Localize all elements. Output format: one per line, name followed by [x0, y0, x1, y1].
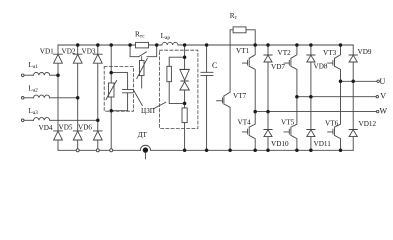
wire bypass switch left: [130, 45, 138, 57]
transistor VT4: [242, 112, 255, 151]
transistor VT3: [328, 45, 341, 81]
current sensor DT hump: [140, 145, 150, 150]
wire Rt right lead: [246, 30, 255, 45]
svg-text:Lа3: Lа3: [28, 107, 38, 116]
transistor VT5: [284, 97, 297, 151]
wire bottom DC bus right segment: [151, 149, 354, 151]
node top bus box1: [109, 43, 113, 47]
diode VD11: [307, 97, 315, 151]
svg-text:VD8: VD8: [314, 62, 328, 70]
transistor VT6: [328, 81, 341, 150]
node bottom bus VD6: [96, 149, 99, 152]
wire TVS to node: [184, 90, 186, 103]
node box1 top: [109, 71, 113, 75]
resistor R2 box2: [167, 66, 172, 81]
wire bottom DC bus left segment: [58, 149, 140, 151]
node bottom bus VD11: [309, 149, 313, 153]
transistor VT1: [242, 45, 255, 112]
node top bus VD3: [96, 43, 100, 47]
wire box2 left branch top: [169, 57, 184, 66]
svg-text:Lар: Lар: [161, 32, 171, 41]
transistor VT2: [284, 45, 297, 97]
svg-text:VD1: VD1: [40, 47, 54, 55]
terminal W: [377, 110, 379, 112]
diode VD6: [93, 131, 102, 150]
wire phase 1 input: [24, 74, 34, 76]
varistor RU2 under switch: [141, 57, 143, 61]
wire box2 column to resistor R3: [184, 103, 186, 108]
svg-text:VD4: VD4: [39, 124, 53, 132]
node W VD7: [266, 110, 270, 114]
svg-text:VD2: VD2: [62, 48, 76, 56]
inductor La1: [34, 73, 50, 76]
node bottom bus box1: [110, 149, 113, 152]
svg-text:W: W: [380, 107, 388, 116]
node top bus VT3: [339, 43, 343, 47]
node U VT3: [339, 80, 343, 84]
svg-text:VT1: VT1: [236, 47, 250, 55]
diode VD10: [264, 112, 272, 151]
node W VT1: [253, 110, 257, 114]
svg-text:VD9: VD9: [358, 48, 372, 56]
node top bus VD2: [76, 43, 80, 47]
capacitor C1 snubber: [111, 73, 133, 111]
node U VD9: [351, 80, 355, 84]
svg-text:VD3: VD3: [82, 48, 96, 56]
inductor La2: [34, 95, 50, 98]
node phase A: [56, 73, 60, 77]
wire column 2 middle: [77, 98, 79, 131]
svg-text:C: C: [212, 61, 217, 70]
node bottom bus VT5: [295, 149, 299, 153]
wire output U: [341, 80, 378, 82]
label pointer CZP left: [134, 91, 143, 106]
terminal U: [377, 80, 379, 82]
wire capacitor C column bottom: [206, 75, 208, 150]
diode VD5: [73, 131, 82, 150]
svg-text:Rт: Rт: [230, 12, 238, 21]
node phase B: [76, 96, 80, 100]
svg-text:Lа2: Lа2: [28, 84, 38, 93]
svg-text:VT4: VT4: [238, 119, 252, 127]
wire snubber box1 column top: [110, 45, 112, 73]
label pointer CZP right: [154, 102, 166, 109]
resistor R3 box2 bottom: [182, 108, 187, 123]
node box1 bottom: [109, 109, 113, 113]
svg-text:VT6: VT6: [325, 120, 339, 128]
node bottom bus VT4: [253, 149, 257, 153]
diode VD4: [54, 131, 63, 150]
current sensor DT dot: [143, 147, 148, 152]
node box2 bottom: [183, 102, 187, 106]
wire output V: [297, 96, 376, 98]
wire Rt left lead to VT7 collector: [230, 30, 233, 92]
resistor Rt brake: [233, 27, 246, 33]
node top bus VD7: [266, 43, 270, 47]
diode VD1: [54, 45, 63, 75]
svg-text:VD11: VD11: [314, 140, 332, 148]
node top bus box2: [183, 43, 187, 47]
current sensor DT lead: [144, 153, 146, 159]
TVS suppressor VD bidirectional: [180, 69, 189, 90]
wire snubber box1 column bottom: [110, 111, 112, 151]
varistor RU1: [110, 73, 112, 83]
wire top DC bus right segment: [178, 44, 353, 46]
svg-text:Rтс: Rтс: [135, 30, 145, 39]
wire column 3 middle: [97, 120, 99, 131]
svg-text:V: V: [380, 92, 386, 101]
dashed enclosure box1: [104, 67, 133, 112]
node bottom bus VD5: [76, 149, 79, 152]
wire box2 column top: [184, 45, 186, 57]
svg-text:VD5: VD5: [59, 124, 73, 132]
node V VT2: [295, 95, 299, 99]
node box2 top: [183, 55, 187, 59]
diode VD3: [93, 45, 102, 120]
wire column 1 middle: [57, 75, 59, 131]
terminal V: [376, 96, 378, 98]
diode VD12: [349, 81, 357, 150]
svg-text:VD10: VD10: [271, 140, 289, 148]
wire phase 3 to node C: [50, 119, 98, 121]
capacitor C: [201, 72, 213, 75]
terminal input phase 2: [21, 97, 24, 100]
wire phase 2 input: [24, 97, 34, 99]
wire phase 1 to node A: [50, 74, 58, 76]
diode VD8: [307, 45, 315, 97]
svg-text:ДТ: ДТ: [138, 131, 148, 139]
wire output W: [255, 111, 376, 113]
svg-text:VT2: VT2: [278, 49, 292, 57]
node bottom bus capacitor: [205, 149, 209, 153]
terminal input phase 1: [21, 74, 24, 77]
node top bus switch left: [128, 43, 132, 47]
transistor VT7: [217, 92, 231, 150]
node bottom bus VD10: [266, 149, 270, 153]
svg-text:Lа1: Lа1: [29, 61, 39, 70]
node phase C: [96, 119, 100, 123]
svg-text:VD12: VD12: [359, 120, 377, 128]
inductor La3: [34, 118, 50, 121]
wire phase 2 to node B: [50, 97, 78, 99]
node top bus VT2: [295, 43, 299, 47]
svg-text:VD7: VD7: [271, 63, 285, 71]
diode VD7: [264, 45, 272, 112]
switch K1 blade: [139, 52, 147, 57]
wire box2 column bottom: [184, 123, 186, 151]
node top bus VD8: [309, 43, 313, 47]
terminal input phase 3: [21, 119, 24, 122]
diode VD9: [349, 45, 357, 81]
node bottom bus VT7: [228, 149, 232, 153]
wire top DC bus left segment: [58, 44, 162, 46]
svg-text:U: U: [380, 77, 386, 86]
resistor Rtc: [136, 42, 149, 48]
node bottom bus VT6: [339, 149, 343, 153]
wire box2 column to TVS: [184, 57, 186, 69]
svg-text:VT3: VT3: [323, 49, 337, 57]
dashed enclosure box2: [160, 50, 198, 128]
inductor Lap: [162, 42, 178, 45]
node top bus VT1: [253, 43, 257, 47]
svg-text:VT7: VT7: [233, 92, 247, 100]
wire phase 3 input: [24, 119, 34, 121]
wire bypass switch right: [147, 45, 157, 57]
wire capacitor C column top: [206, 45, 208, 72]
node top bus switch right: [155, 43, 159, 47]
node bottom bus box2: [183, 149, 187, 153]
svg-text:ЦЗП: ЦЗП: [141, 107, 155, 115]
svg-text:VD6: VD6: [78, 124, 92, 132]
node top bus capacitor: [205, 43, 209, 47]
node V VD8: [309, 95, 313, 99]
wire box2 left branch bottom: [169, 82, 184, 104]
diode VD2: [73, 45, 82, 98]
svg-text:VT5: VT5: [281, 119, 295, 127]
